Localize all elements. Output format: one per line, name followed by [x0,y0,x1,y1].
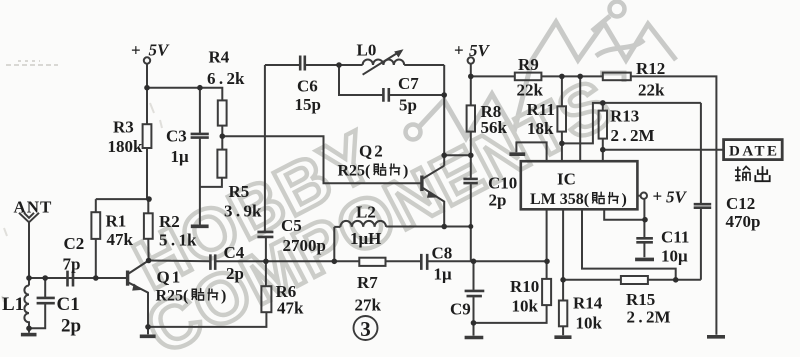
svg-text:C3: C3 [166,127,187,146]
capacitor C6 [300,56,305,71]
svg-text:R4: R4 [209,48,230,67]
ground (C11) [635,258,654,262]
capacitor C9 [465,291,485,296]
wire tank right side down to Q2 collector [443,65,445,166]
resistor R13 [599,111,607,139]
svg-text:L1: L1 [2,294,24,315]
power +5V terminal 3 [641,193,647,199]
junction Q2 collector node [441,153,447,159]
svg-text:LM 358(: LM 358( [530,191,589,208]
transistor Q2 base bar [420,176,423,192]
capacitor C3 [191,134,209,138]
svg-text:R5: R5 [229,182,250,201]
svg-text:+: + [454,41,464,60]
svg-text:2p: 2p [489,191,507,210]
svg-text:22k: 22k [638,81,665,100]
wire IC pin to R10 top [546,209,548,279]
svg-text:1μ: 1μ [434,265,453,284]
DATE output box [724,140,783,160]
svg-text:Q2: Q2 [359,142,385,161]
junction C1 top [42,275,48,281]
junction R8 bottom node [468,153,474,159]
wire input node [29,277,127,279]
svg-text:2700p: 2700p [283,236,326,255]
resistor R1 [91,212,100,239]
ground (IC hook) [509,152,525,156]
svg-text:15p: 15p [295,95,321,114]
wire L2 right / emitter node [386,226,471,228]
transistor Q2 collector [423,166,444,179]
transistor Q2 emitter arrow [427,191,438,198]
wire R15 rail [563,279,701,281]
svg-text:R25(: R25( [156,288,189,305]
svg-text:180k: 180k [108,137,144,156]
svg-text:10k: 10k [576,314,603,333]
junction R14 top [560,277,566,283]
svg-text:Q1: Q1 [157,268,183,287]
svg-text:2p: 2p [61,316,81,337]
wire R1 branch [96,199,149,212]
wire R1 bottom lead [95,239,97,278]
junction L1/C1 bottom [26,326,32,332]
junction L2 left on rail [332,259,338,265]
svg-text:R11: R11 [527,100,555,119]
wire IC pin grounded hook [516,142,546,161]
junction R3/R1/R2 node [146,196,152,202]
svg-text:10k: 10k [512,297,539,316]
wire C1 bottom / L1 bottom [29,304,45,333]
resistor R12 [603,73,631,81]
svg-text:R1: R1 [106,212,127,231]
svg-text:R7: R7 [357,273,378,292]
capacitor C10 top lead [470,155,472,178]
capacitor C12 [694,204,712,208]
svg-text:R13: R13 [610,107,639,126]
svg-text:C7: C7 [398,74,419,93]
wire IC pin to R14 top [562,209,564,300]
transistor Q2 emitter [423,188,444,227]
capacitor C5 [257,232,273,237]
capacitor C2 [68,271,74,287]
wire C5 bottom lead [265,238,267,261]
transistor Q1 collector [129,261,149,274]
junction +5V/R8/R9 node [468,74,474,80]
wire antenna stem [28,222,30,278]
inductor L0 [363,60,405,66]
junction R15 right/C11 net [673,277,679,283]
wire +5V2 to R9 rail [470,64,472,77]
transistor Q1 emitter arrow [132,284,142,291]
wire R6 bottom to Q1 emitter [148,312,266,327]
resistor R7 [359,258,385,266]
junction +5V pin/C11 node [642,217,648,223]
junction Q2 emitter node [441,224,447,230]
wire R9 rail [471,75,603,77]
wire R11 top lead [561,76,563,106]
wire C7 branch left [339,65,382,95]
svg-text:5 . 1k: 5 . 1k [159,231,197,250]
svg-text:C2: C2 [64,234,85,253]
junction +5V/R3 node [144,85,150,91]
junction emitter wire corner [468,224,473,229]
wire Q1 emitter ground stub [147,327,149,334]
wire R13 top lead [602,103,604,111]
power +5V terminal 1 [144,57,150,63]
svg-text:6 . 2k: 6 . 2k [207,69,245,88]
watermark logo zigzag with ring terminals (top right) [406,2,677,140]
ground (R14) [554,335,571,339]
svg-text:): ) [622,191,627,208]
resistor R14 [559,301,567,327]
transistor Q1 emitter [129,283,148,327]
svg-text:470p: 470p [726,212,761,231]
svg-text:C1: C1 [57,294,80,315]
wire IC pin to +5V node [604,209,645,219]
svg-text:2p: 2p [226,264,244,283]
junction Q1 collector node [146,258,152,264]
wire C10 bottom / Q2 emitter line to detector rail [470,184,472,261]
resistor R10 [542,279,551,305]
detector rail (Q1 collector to R10) [149,260,547,263]
wire IC pin from R9/R12 node [579,76,581,161]
svg-text:+: + [131,41,141,60]
junction C3 top [197,85,203,91]
svg-text:): ) [221,288,226,305]
svg-text:2 . 2M: 2 . 2M [611,126,655,145]
capacitor C5 top lead from C6 branch [264,230,266,233]
svg-text:C11: C11 [661,228,689,247]
junction R13 bottom output node [600,147,606,153]
wire +5V down to rail [146,64,148,88]
wire R3 bottom to R1/R2 node [147,148,148,213]
svg-text:C5: C5 [281,216,302,235]
svg-text:47k: 47k [107,230,134,249]
wire C9 bottom to R10 bottom [474,297,547,323]
resistor R2 [144,213,153,239]
svg-text:R10: R10 [510,277,539,296]
svg-text:+: + [653,187,663,206]
svg-text:L2: L2 [356,203,376,222]
wire inverting node to R13 top rail [562,103,701,143]
wire R12 right and down right edge [631,76,717,334]
junction C9 bottom [471,320,477,326]
resistor R4 [218,100,227,125]
wire R6 top lead [265,261,267,286]
wire R13 bottom to IC output pin [602,139,604,162]
wire R3 top lead [146,88,148,125]
junction R11 top [559,74,565,80]
junction tank left node [336,62,342,68]
svg-text:L0: L0 [357,41,377,60]
svg-text:47k: 47k [277,299,304,318]
capacitor C1 top lead [44,278,46,297]
junction R1 bottom on base wire [93,275,99,281]
svg-text:5V: 5V [666,188,688,207]
svg-text:3: 3 [360,317,371,341]
junction R13 top [600,100,606,106]
wire C3 bottom / R5 bottom to ground [200,139,222,225]
svg-text:5p: 5p [399,96,417,115]
wire L2 left lead down to rail [334,227,340,261]
inductor L1 [24,278,29,328]
capacitor C3 top lead [199,88,201,133]
wire R14 ground stub [562,326,564,335]
resistor R5 [217,150,226,178]
ground (C9) [465,336,484,340]
svg-text:27k: 27k [355,296,382,315]
svg-text:ANT: ANT [14,198,53,217]
wire IC +5V pin stub [637,195,640,197]
junction Q1 emitter ground node [145,324,151,330]
wire +5V3 down through C11 [643,199,645,238]
wire R2 bottom to Q1 collector node [147,239,149,261]
scan noise marks (left) [2,61,162,302]
svg-text:DATE: DATE [729,144,780,160]
resistor R6 [261,286,271,312]
label output chinese [735,166,750,180]
power +5V terminal 2 [468,57,474,63]
wire R8 bottom to collector node [444,132,471,156]
wire C7 right [390,94,444,96]
svg-text:C12: C12 [726,194,755,213]
svg-text:18k: 18k [527,119,554,138]
junction C5/R6 on rail [263,259,269,265]
junction R10 top on rail [544,259,550,265]
wire tank top left [339,64,363,66]
svg-text:3 . 9k: 3 . 9k [224,202,262,221]
svg-text:): ) [403,163,408,180]
svg-text:R12: R12 [636,59,665,78]
wire R4 bottom junction [221,126,223,150]
resistor R9 [515,73,542,81]
svg-text:56k: 56k [481,118,508,137]
junction R11 bottom inverting node [559,141,565,147]
inductor L2 [340,221,386,227]
wire IC pin to C11 bottom net [582,209,676,279]
capacitor C9 top lead [473,261,475,290]
svg-text:IC: IC [557,170,576,189]
svg-text:R25(: R25( [338,163,371,180]
svg-text:C4: C4 [224,243,245,262]
svg-text:2 . 2M: 2 . 2M [627,308,671,327]
wire tank top right [404,64,444,66]
svg-text:C8: C8 [432,244,453,263]
svg-text:C6: C6 [297,77,318,96]
svg-text:22k: 22k [517,81,544,100]
wire C12 branch down [700,103,702,280]
wire C9 ground stub [473,323,475,336]
antenna ANT symbol [19,213,39,223]
junction C7 right node [441,92,447,98]
svg-text:1μ: 1μ [171,147,190,166]
capacitor C4 [210,254,215,270]
capacitor C1 [37,298,55,303]
wire R8 top lead [470,76,472,105]
ground (Q1 emitter) [140,334,156,338]
resistor R11 [557,106,566,131]
wire top-left +5V rail [147,88,222,101]
transistor Q1 base bar [126,271,129,286]
IC box U1 [521,161,638,209]
wire R11 bottom into IC pin [561,132,563,162]
svg-text:10μ: 10μ [661,247,688,266]
svg-text:R14: R14 [573,294,603,313]
svg-text:R3: R3 [113,118,134,137]
ground (right edge) [707,335,725,339]
arrow across L0 (variable) [363,52,399,75]
svg-text:5V: 5V [149,41,171,60]
svg-text:R9: R9 [518,55,539,74]
junction antenna node [26,275,32,281]
resistor R3 [143,124,152,148]
capacitor C8 [421,254,427,270]
resistor R8 [467,105,475,131]
capacitor C7 [383,88,388,102]
svg-text:R2: R2 [159,212,180,231]
wire C11 ground stub [643,243,645,257]
junction R4/R5 node [220,133,226,139]
svg-text:R15: R15 [626,290,655,309]
resistor R15 [621,276,648,284]
symbol circled 3 [354,316,378,340]
svg-text:1μH: 1μH [350,229,381,248]
junction IC pin line top [577,74,583,80]
ground (C3/R5) [191,225,209,229]
capacitor C11 [636,238,653,242]
wire R4/R5 node to Q2 base [222,136,420,183]
svg-text:C9: C9 [450,300,471,319]
ground (L1/C1) [21,333,37,337]
svg-text:5V: 5V [469,41,491,60]
junction C9 top on rail [471,259,477,265]
svg-text:7p: 7p [63,255,81,274]
capacitor C10 [463,179,477,183]
wire DATE output line [603,149,724,151]
wire C6 left lead [265,64,299,66]
wire C6 right to tank node [306,64,339,66]
wire C6 left branch down to C5 [264,65,266,231]
